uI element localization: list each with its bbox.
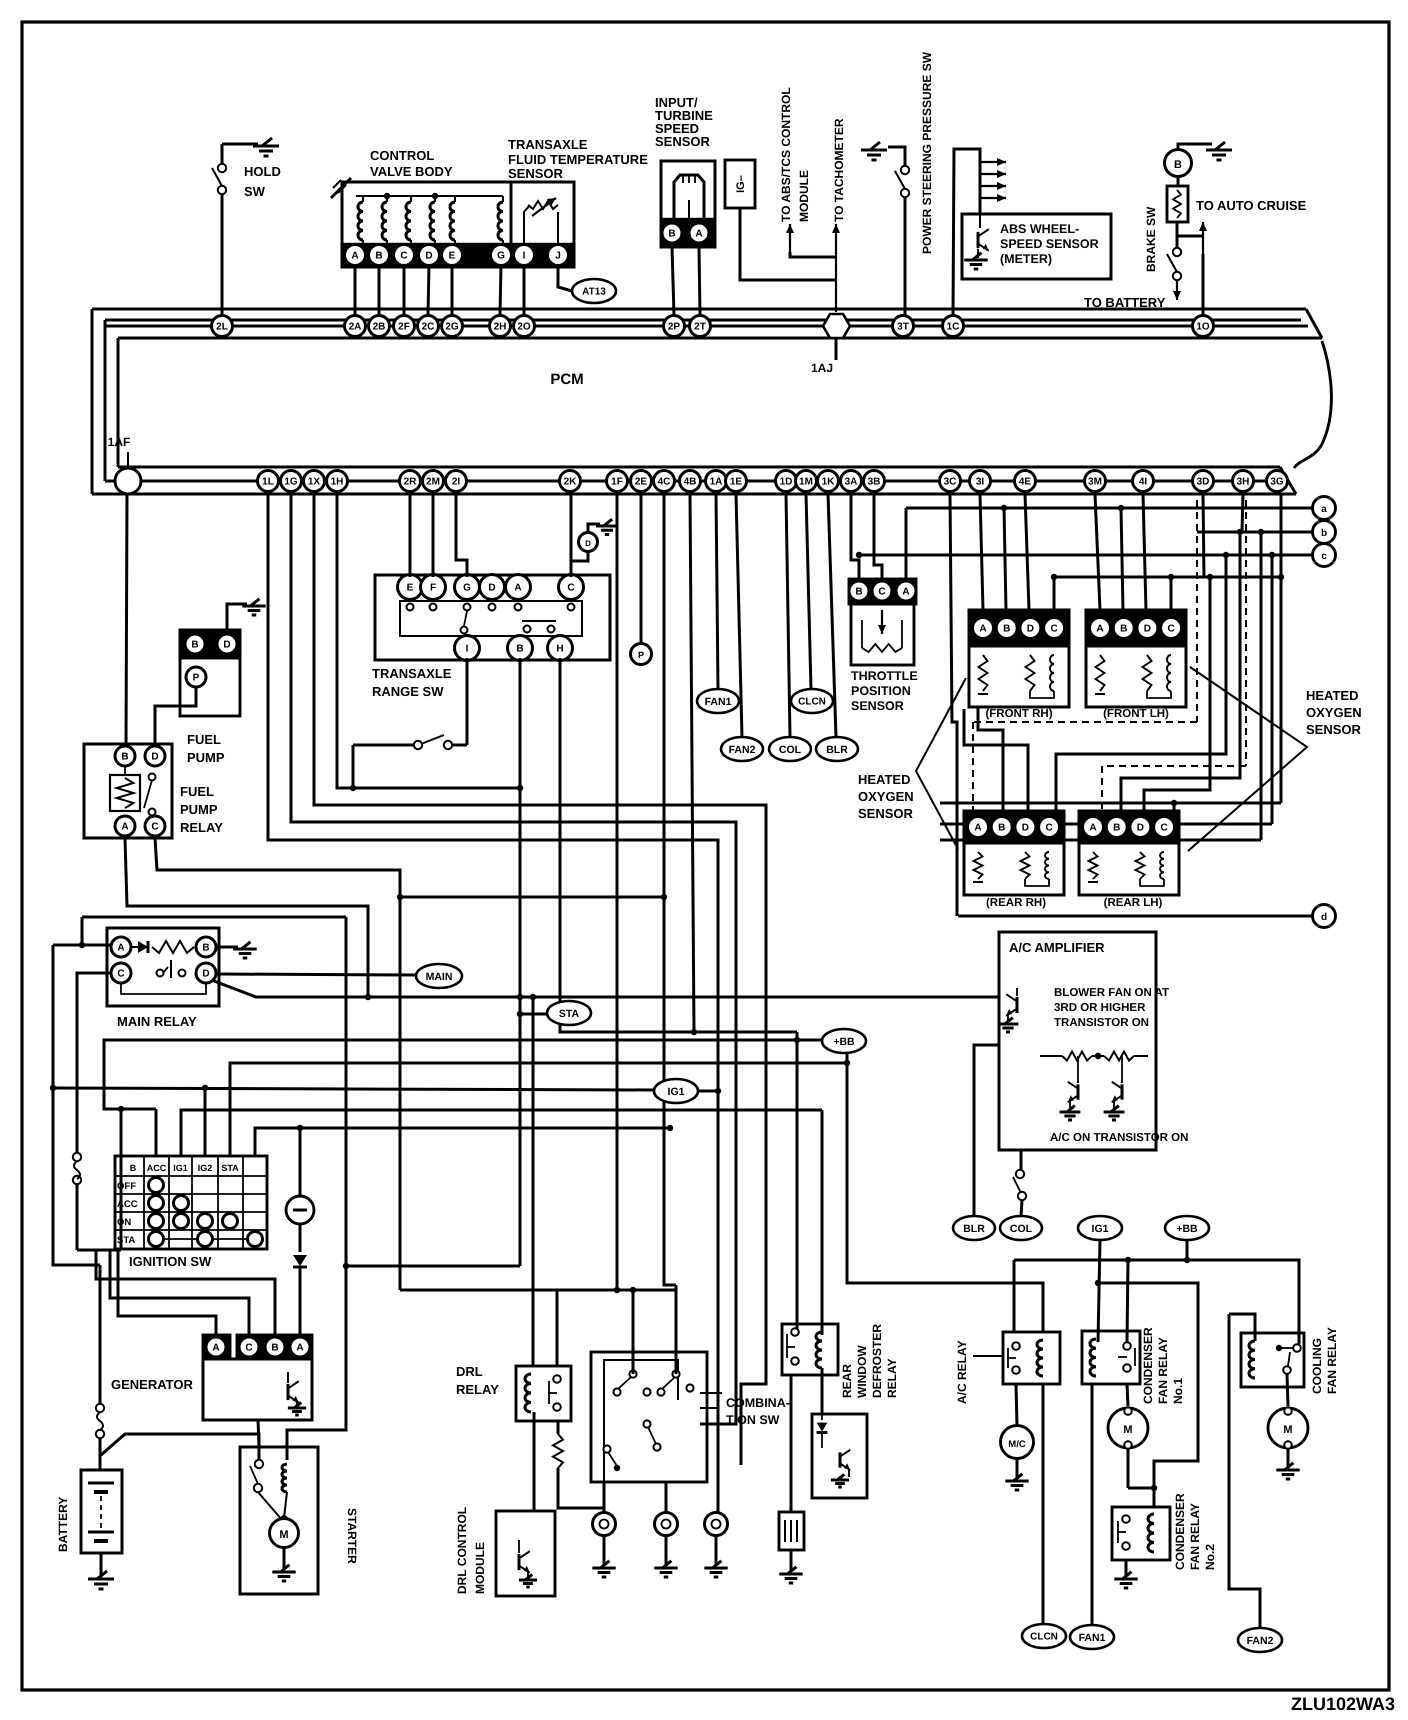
svg-text:1A: 1A [710, 477, 723, 488]
arrow to auto cruise [1202, 222, 1204, 260]
svg-text:2B: 2B [373, 322, 386, 333]
wire ignition B riser [155, 1109, 158, 1156]
wire IG1 column run [204, 1088, 207, 1156]
svg-text:C: C [117, 969, 124, 980]
wire REAR RH C staircase [1056, 555, 1226, 811]
pointer heated oxygen sensor left [916, 678, 966, 849]
M/C motor [1001, 1426, 1034, 1459]
svg-text:FAN1: FAN1 [1079, 1632, 1106, 1644]
O2 FRONT LH sense resistor [1143, 655, 1152, 691]
svg-text:2M: 2M [426, 477, 440, 488]
connector d [1313, 905, 1336, 928]
solenoid coil [406, 202, 411, 240]
svg-text:C: C [1160, 823, 1167, 834]
wire 3G down long [1280, 494, 1283, 803]
svg-text:REAR: REAR [840, 1364, 854, 1398]
transaxle range sw inner box [400, 601, 582, 636]
range sw pin C [559, 575, 584, 600]
generator pin C [239, 1337, 259, 1357]
wire 2M to range sw F [432, 494, 435, 577]
svg-text:DRL CONTROL: DRL CONTROL [455, 1507, 469, 1594]
wire IG1 branch to condenser no2 [1098, 1283, 1198, 1507]
valve body pin D [419, 245, 440, 266]
svg-text:1D: 1D [780, 477, 793, 488]
svg-text:2C: 2C [422, 322, 435, 333]
svg-text:3D: 3D [1197, 477, 1210, 488]
svg-text:G: G [497, 251, 505, 262]
solenoid coil [430, 202, 435, 240]
svg-text:B: B [855, 587, 862, 598]
module diode [821, 1414, 823, 1420]
svg-text:4E: 4E [1019, 477, 1032, 488]
generator pin B [265, 1337, 285, 1357]
A/C relay coil [1037, 1340, 1043, 1376]
module transistor [839, 1452, 842, 1467]
fuel pump outer box [180, 630, 240, 716]
ground circle D (2K) [571, 551, 588, 561]
wire IG- to tach line [740, 208, 836, 280]
PCM pin 1E [726, 471, 747, 492]
wire cooling relay to motor [1287, 1374, 1288, 1406]
svg-text:2F: 2F [398, 322, 410, 333]
amp blower transistor [1016, 997, 1019, 1013]
main relay pin C [111, 963, 131, 983]
svg-text:1O: 1O [1196, 322, 1210, 333]
wire battery to starter [101, 1434, 259, 1460]
svg-text:VALVE BODY: VALVE BODY [370, 164, 453, 179]
fuel pump pin D [217, 634, 237, 654]
svg-text:A: A [1089, 823, 1096, 834]
wire M1 down [1127, 1449, 1130, 1488]
ground (module) [831, 1479, 849, 1482]
svg-text:CLCN: CLCN [798, 697, 826, 708]
wire REAR RH D staircase [964, 709, 1028, 811]
PCM pin 1H [327, 471, 348, 492]
svg-text:4B: 4B [684, 477, 697, 488]
svg-text:PUMP: PUMP [180, 802, 218, 817]
svg-text:IG1: IG1 [173, 1163, 188, 1173]
valve body pin J [548, 245, 569, 266]
svg-text:GENERATOR: GENERATOR [111, 1377, 193, 1392]
wire long line y824 (right) [940, 823, 1272, 826]
O2 FRONT RH coil [1050, 655, 1054, 691]
wire +BB bottom to y1260 [1186, 1240, 1189, 1260]
ground (generator internal) [288, 1407, 306, 1410]
O2 REAR LH pin C [1154, 817, 1175, 838]
O2 REAR LH pin A [1083, 817, 1104, 838]
connector CLCN (bottom) [1022, 1624, 1066, 1648]
O2 REAR RH pin B [991, 817, 1012, 838]
wire b line [1197, 531, 1312, 534]
svg-text:HEATED: HEATED [1306, 688, 1358, 703]
wire 1A to FAN1 [716, 494, 718, 689]
PCM pin 1D [776, 471, 797, 492]
svg-text:B: B [271, 1343, 278, 1354]
svg-text:4C: 4C [658, 477, 671, 488]
O2 REAR LH coil [1160, 852, 1164, 879]
comb sw feeds [632, 1290, 635, 1374]
PCM pin 1A [706, 471, 727, 492]
connector FAN1 (bottom) [1070, 1625, 1114, 1649]
svg-text:D: D [1137, 823, 1144, 834]
ground (hold sw) [253, 145, 279, 148]
defroster relay switch [791, 1328, 799, 1336]
wire 3C to d line [950, 494, 957, 916]
A/C relay lead [973, 1355, 1003, 1357]
svg-text:MODULE: MODULE [473, 1542, 487, 1594]
O2 FRONT RH pin B [996, 618, 1017, 639]
svg-text:A: A [695, 229, 702, 240]
O2 REAR RH heater resistor [974, 852, 983, 879]
wire 1D to COL [786, 494, 790, 737]
svg-text:IGNITION SW: IGNITION SW [129, 1254, 212, 1269]
svg-text:A: A [296, 1343, 303, 1354]
O2 REAR LH pin B [1106, 817, 1127, 838]
fuel pump relay coil [110, 775, 140, 811]
wire FRONT RH C to bus [1053, 577, 1056, 610]
svg-text:d: d [1321, 912, 1327, 923]
range sw contacts [407, 604, 414, 611]
wire c-line riser 1272 [1271, 555, 1274, 824]
svg-text:C: C [400, 251, 407, 262]
wire TPS A to connector a [905, 508, 908, 579]
svg-text:M: M [279, 1529, 288, 1541]
svg-text:P: P [193, 673, 200, 684]
solenoid coil [358, 202, 363, 240]
svg-text:OXYGEN: OXYGEN [1306, 705, 1362, 720]
wire riser x797 to defroster switch [796, 1032, 799, 1332]
svg-text:STARTER: STARTER [345, 1508, 359, 1564]
svg-text:CLCN: CLCN [1030, 1632, 1058, 1643]
svg-text:TO TACHOMETER: TO TACHOMETER [832, 118, 846, 222]
svg-text:A: A [902, 587, 909, 598]
svg-text:3T: 3T [897, 322, 909, 333]
condenser no2 switch [1122, 1515, 1130, 1523]
svg-text:D: D [151, 752, 158, 763]
condenser no1 coil [1090, 1339, 1096, 1376]
cooling relay switch [1293, 1344, 1301, 1352]
range sw pin E [398, 575, 423, 600]
ABS sensor transistor [979, 214, 981, 228]
PCM pin 2L [212, 316, 233, 337]
wires valve body to PCM [354, 265, 357, 315]
svg-text:COOLING: COOLING [1310, 1338, 1324, 1394]
ground (battery) [88, 1578, 114, 1581]
wire 1E to FAN2 [736, 494, 742, 737]
wire generator to starter [258, 1420, 259, 1447]
O2 FRONT LH heater resistor [1096, 655, 1105, 691]
fuel pump relay pin C [145, 816, 165, 836]
wire lamp to ground [1178, 144, 1212, 149]
svg-text:+BB: +BB [1176, 1223, 1198, 1235]
wire REAR LH D staircase [1144, 577, 1210, 811]
ABS sensor arrows [980, 161, 1006, 163]
wire d line [958, 915, 1312, 918]
PCM pin 3T [893, 316, 914, 337]
wire DRL coil to module [533, 1412, 536, 1511]
svg-text:OFF: OFF [117, 1181, 136, 1192]
svg-text:BLR: BLR [826, 744, 848, 756]
connector a [1313, 497, 1336, 520]
amp resistor 2 [1092, 1055, 1104, 1057]
ground (main relay B) [217, 946, 238, 949]
svg-text:TO AUTO CRUISE: TO AUTO CRUISE [1196, 198, 1307, 213]
wire long line y840 (right) [940, 839, 1261, 842]
wire 1K to BLR [828, 494, 836, 737]
svg-text:DRL: DRL [456, 1364, 483, 1379]
svg-text:D: D [223, 640, 230, 651]
svg-text:1C: 1C [947, 322, 960, 333]
svg-text:a: a [1321, 504, 1327, 515]
PCM pin 2R [400, 471, 421, 492]
O2 REAR RH coil [1045, 852, 1049, 879]
arrow to tachometer [835, 224, 837, 312]
TPS wiper arrow [881, 610, 883, 634]
ABS wheel-speed sensor box [962, 214, 1111, 279]
TPS resistor [862, 644, 902, 652]
wire fuel pump relay A run [125, 838, 368, 997]
svg-text:B: B [516, 644, 523, 655]
O2 REAR LH pin D [1130, 817, 1151, 838]
svg-text:STA: STA [559, 1008, 580, 1020]
condenser no1 switch [1123, 1342, 1131, 1350]
wire cooling coil feed [1229, 1314, 1255, 1341]
wire 4E to FRONT RH D [1025, 494, 1029, 610]
svg-text:A: A [117, 943, 124, 954]
hatch arrow on valve body [331, 178, 351, 198]
svg-text:SENSOR: SENSOR [508, 166, 564, 181]
svg-text:B: B [130, 1163, 137, 1173]
svg-text:M/C: M/C [1008, 1439, 1026, 1450]
wire 3B to TPS C [874, 494, 882, 579]
svg-text:3G: 3G [1270, 477, 1284, 488]
A/C relay switch [1012, 1342, 1020, 1350]
wire +BB down to A/C relay [847, 1053, 1043, 1333]
condenser no2 coil [1148, 1514, 1154, 1552]
svg-text:IG1: IG1 [1092, 1223, 1109, 1235]
svg-text:C: C [245, 1343, 252, 1354]
svg-text:RELAY: RELAY [456, 1382, 499, 1397]
ground (amp transistor 1) [1060, 1111, 1081, 1114]
svg-text:G: G [463, 583, 471, 594]
ground (starter) [272, 1571, 295, 1574]
svg-text:F: F [430, 583, 436, 594]
O2 REAR LH sense resistor [1136, 852, 1145, 879]
speed sensor pin B [662, 223, 682, 243]
PCM pin 2F [394, 316, 415, 337]
wire STA to generator A [299, 1128, 302, 1196]
transaxle range switch box [375, 575, 610, 660]
wire left riser x82 [81, 917, 84, 945]
wire 4C down [664, 494, 676, 1285]
wire STA column run [255, 1128, 670, 1156]
svg-text:E: E [407, 583, 414, 594]
wire IG1 oval stub [698, 1090, 718, 1093]
fuel pump relay switch [149, 774, 156, 781]
park/neutral switch on wire [353, 744, 414, 747]
wire main relay D diagonal to A/C amp rail [214, 981, 999, 997]
svg-text:SENSOR: SENSOR [851, 699, 904, 713]
wire 4I to FRONT LH D [1143, 494, 1146, 610]
svg-text:B: B [1174, 159, 1182, 171]
wire x121 to battery fuse rail [120, 1109, 123, 1250]
svg-text:OXYGEN: OXYGEN [858, 789, 914, 804]
hold switch wire [221, 194, 224, 315]
DRL relay resistor [557, 1421, 560, 1434]
power steering pressure switch [901, 166, 909, 174]
svg-text:BLOWER FAN ON AT: BLOWER FAN ON AT [1054, 987, 1169, 999]
svg-text:MAIN RELAY: MAIN RELAY [117, 1014, 197, 1029]
wire battery to ground [100, 1553, 103, 1577]
svg-text:CONDENSER: CONDENSER [1173, 1493, 1187, 1570]
svg-text:CONDENSER: CONDENSER [1141, 1327, 1155, 1404]
connector P (2E) [640, 494, 643, 644]
svg-text:TRANSAXLE: TRANSAXLE [372, 666, 452, 681]
wire DRL switch feed [556, 1290, 559, 1366]
fuse (battery-generator) [76, 1151, 79, 1155]
connector FAN1 [697, 689, 739, 713]
dashed wire to REAR RH A [1196, 500, 1198, 722]
PCM pin 1F [607, 471, 628, 492]
svg-text:POWER STEERING PRESSURE SW: POWER STEERING PRESSURE SW [920, 51, 934, 254]
PCM pin 3I [970, 471, 991, 492]
wire fuse to brake switch [1176, 222, 1179, 247]
wire DRL coil feed [532, 997, 535, 1366]
svg-text:D: D [1022, 823, 1029, 834]
wire 1AF to relay B [126, 494, 127, 746]
heated O2 sensor connector box REAR RH [964, 811, 1064, 843]
ignition switch table [115, 1156, 267, 1249]
TPS pin A [896, 581, 916, 601]
valve body pin E [442, 245, 463, 266]
svg-text:A: A [121, 822, 128, 833]
PCM pin 2A [345, 316, 366, 337]
svg-text:(FRONT RH): (FRONT RH) [985, 708, 1052, 720]
main relay box [107, 928, 219, 1006]
svg-text:C: C [1045, 823, 1052, 834]
PCM top connector band [92, 308, 1306, 311]
svg-text:(FRONT LH): (FRONT LH) [1103, 708, 1169, 720]
valve body pin I [514, 245, 535, 266]
range sw pin H [548, 636, 573, 661]
svg-text:SENSOR: SENSOR [655, 134, 711, 149]
wire range sw B down [519, 658, 522, 1266]
battery box [81, 1470, 122, 1553]
wire FRONT LH C up [1170, 577, 1173, 610]
ground connector G2 [665, 1482, 668, 1513]
wire a line [906, 507, 1312, 510]
svg-text:STA: STA [221, 1163, 239, 1173]
heater element [779, 1512, 804, 1550]
svg-text:BRAKE SW: BRAKE SW [1144, 206, 1158, 272]
main relay coil [152, 941, 194, 953]
svg-text:RELAY: RELAY [885, 1358, 899, 1398]
PCM pin 2H [490, 316, 511, 337]
diode (starter line) [293, 1255, 307, 1266]
PCM pin 1M [796, 471, 817, 492]
svg-text:B: B [375, 251, 382, 262]
svg-text:AT13: AT13 [582, 287, 606, 298]
wire J to AT13 [558, 265, 572, 291]
svg-text:2E: 2E [635, 477, 648, 488]
svg-text:C: C [151, 822, 158, 833]
PCM right torn edge [1294, 341, 1331, 468]
heated O2 sensor connector box FRONT LH [1086, 610, 1186, 646]
input/turbine speed sensor box [661, 161, 715, 247]
O2 FRONT RH pin D [1020, 618, 1041, 639]
wire y1250 [77, 1249, 121, 1252]
solenoid coil (G) [498, 202, 503, 240]
A/C amp output switch [1016, 1170, 1024, 1178]
svg-text:SENSOR: SENSOR [1306, 722, 1362, 737]
wire 1G long run [291, 494, 736, 1424]
main relay diode [138, 941, 148, 953]
fuel pump pin B [185, 634, 205, 654]
svg-text:D: D [202, 969, 209, 980]
connector circle (starter line) [286, 1196, 314, 1224]
A/C relay box [1003, 1332, 1060, 1384]
solenoid coil [450, 202, 455, 240]
svg-text:RELAY: RELAY [180, 820, 223, 835]
PCM pin 2M [423, 471, 444, 492]
pointer heated oxygen sensor right [1188, 667, 1307, 851]
wire ACC column run [181, 1110, 822, 1156]
wire 4B down [690, 494, 694, 1032]
wire 2I to range sw G [456, 494, 467, 577]
PCM pin 3C [940, 471, 961, 492]
svg-text:B: B [191, 640, 198, 651]
range sw pin B [508, 636, 533, 661]
PCM pin 2I [446, 471, 467, 492]
TPS pin B [849, 581, 869, 601]
svg-text:ABS WHEEL-: ABS WHEEL- [1000, 222, 1079, 236]
wire condenser no2 to ground [1125, 1560, 1128, 1577]
svg-text:2K: 2K [564, 477, 578, 488]
svg-text:3RD OR HIGHER: 3RD OR HIGHER [1054, 1002, 1146, 1014]
svg-text:IG2: IG2 [198, 1163, 213, 1173]
O2 REAR LH element box [1079, 843, 1179, 895]
svg-text:H: H [556, 644, 563, 655]
main relay switch [157, 970, 164, 977]
svg-text:TION SW: TION SW [726, 1413, 780, 1427]
brake sw lamp circle [1165, 150, 1192, 177]
svg-text:STA: STA [117, 1235, 135, 1246]
PCM pin 4B [680, 471, 701, 492]
svg-text:2O: 2O [517, 322, 531, 333]
svg-text:+BB: +BB [833, 1036, 855, 1048]
svg-text:FAN1: FAN1 [705, 696, 732, 708]
svg-text:A: A [212, 1343, 219, 1354]
PCM pin 1O [1193, 316, 1214, 337]
wire y1290 [400, 1289, 676, 1292]
PCM pin 1L [258, 471, 279, 492]
svg-text:1M: 1M [799, 477, 813, 488]
PCM pin 2P [664, 316, 685, 337]
PCM pin 1X [304, 471, 325, 492]
IG- box [725, 160, 755, 208]
O2 REAR RH pin D [1015, 817, 1036, 838]
svg-text:FUEL: FUEL [180, 784, 214, 799]
svg-text:1AF: 1AF [108, 435, 131, 449]
condenser fan relay no2 box [1112, 1507, 1170, 1560]
fuel pump pin P [186, 667, 206, 687]
svg-text:PCM: PCM [550, 371, 583, 388]
PCM pin 2T [690, 316, 711, 337]
svg-text:M: M [1283, 1424, 1292, 1436]
wire a to FRONT LH B [1121, 508, 1123, 610]
PCM pin 1AJ (hex) [823, 314, 850, 338]
transaxle fluid temp sensor box [511, 182, 574, 267]
